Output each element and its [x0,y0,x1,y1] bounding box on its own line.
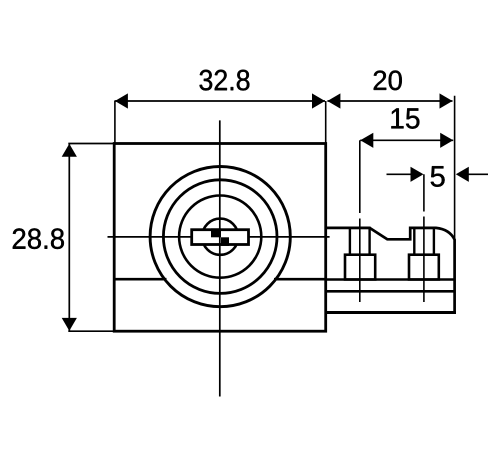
side view line at pin base bottoms [326,278,455,280]
front view step line left segment [114,278,166,281]
right terminal pin base [409,255,439,280]
left pin centerline upper part [359,140,361,213]
label 32.8 [200,70,250,91]
label 15 [391,108,419,128]
shared extension line between 32.8 and 20 [325,101,327,144]
dimension 5 right arrow pointing left [456,167,469,182]
outer circle [150,167,290,307]
front view body rectangle [114,144,326,332]
screw head circle [202,219,238,255]
label 20 [374,71,402,91]
dimension line 15 [360,139,453,141]
dimension 5 left leader line [387,173,412,175]
arrow left of 32.8 [115,93,128,108]
top extension line of 28.8 [68,143,114,145]
side view top profile and right edge [326,228,455,313]
slot lower step block [221,237,229,246]
side view middle horizontal line [326,290,455,293]
bottom extension line of 28.8 [68,330,114,332]
dimension line 32.8 [115,100,325,102]
left pin centerline lower part [359,219,361,303]
front view step line right segment [274,278,326,281]
horizontal centerline [108,236,330,238]
slot upper step block [211,228,221,237]
dimension line 28.8 [68,144,70,330]
side view bottom edge [326,311,456,314]
right edge extension line [454,96,456,240]
dimension line 20 [327,100,452,102]
arrow top of 28.8 [62,144,77,157]
right pin centerline lower part [423,217,425,303]
center slot rectangle [192,230,249,245]
arrow bottom of 28.8 [62,318,77,331]
third circle [179,196,261,278]
second circle [163,180,277,294]
left extension line of 32.8 [114,101,116,145]
vertical centerline [219,120,221,396]
arrow right of 32.8 [312,93,325,108]
left terminal pin base [345,255,375,280]
right pin centerline upper part [423,174,425,211]
label 28.8 [13,228,64,249]
label 5 [431,166,445,187]
right terminal pin blade [414,228,434,255]
dimension 5 right leader line [467,173,488,175]
left terminal pin blade [350,228,370,255]
arrow right of 15 [440,133,453,148]
dimension 5 left arrow pointing right [411,167,424,182]
arrow left of 15 [360,133,373,148]
arrow left of 20 [327,93,340,108]
arrow right of 20 [440,93,453,108]
